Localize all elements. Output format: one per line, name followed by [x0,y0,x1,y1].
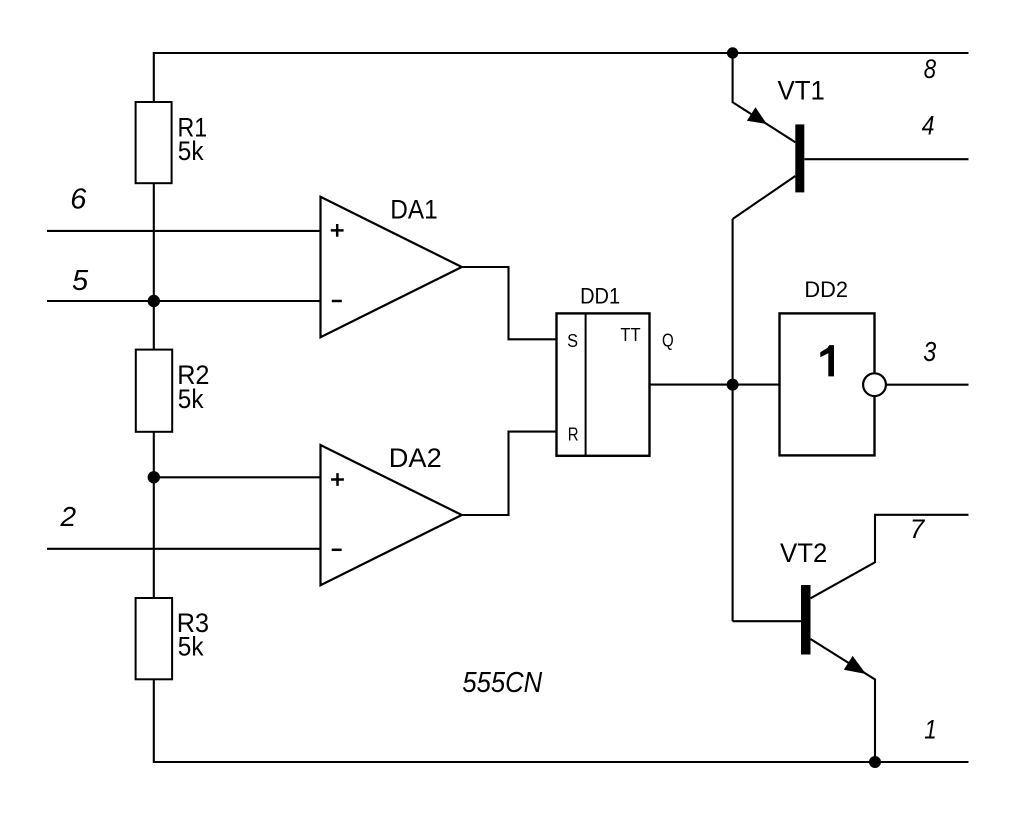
svg-text:1: 1 [924,715,937,745]
svg-text:8: 8 [924,54,937,84]
svg-text:VT1: VT1 [778,75,825,106]
junction node Q output [727,379,739,391]
svg-text:5k: 5k [178,630,204,661]
big 1 symbol inside DD2 [820,345,834,376]
wire DD1 Q output to DD2 input [650,384,780,386]
wire main vertical VT1 collector to VT2 base [732,219,734,621]
wire pin 5 [47,300,321,302]
svg-text:7: 7 [910,514,925,544]
wire DA2 output to DD1 R input [462,432,557,515]
junction node DA2 input [148,471,160,483]
junction node bottom rail [869,756,881,768]
wire VT1 emitter from top rail [733,53,796,142]
svg-text:4: 4 [922,111,935,141]
inversion bubble pin 3 [863,373,886,396]
svg-text:Q: Q [662,330,674,350]
transistor VT1 [747,75,825,193]
resistor R2 [136,350,210,432]
wire pin 2 [47,548,321,550]
inverter DD2 [780,277,886,455]
wire VT2 emitter to bottom rail [811,639,876,762]
svg-text:5: 5 [72,265,89,297]
svg-text:DD2: DD2 [804,277,848,302]
wire R2 to R3 [153,432,155,598]
wire VT1 collector diagonal [733,176,796,219]
wire node to DA2 noninverting input [154,476,321,478]
svg-text:DD1: DD1 [580,283,620,308]
svg-text:6: 6 [70,184,87,216]
svg-text:S: S [567,331,578,351]
transistor VT2 [780,537,866,674]
wire pin 6 [47,230,321,232]
op-amp DA2 [321,442,462,585]
wire pin 3 from DD2 bubble [886,384,969,386]
svg-text:5k: 5k [178,383,204,414]
svg-text:555CN: 555CN [462,667,542,699]
resistor R3 [136,598,210,679]
resistor R1 [136,102,208,183]
wire R1 to R2 [153,183,155,349]
junction node top rail [727,47,738,58]
svg-text:TT: TT [620,324,640,345]
wire VT1 base pin 4 [804,158,968,160]
svg-text:2: 2 [60,501,77,532]
svg-text:DA2: DA2 [389,442,442,473]
wire R3 to bottom rail pin 1 [154,679,969,762]
svg-text:3: 3 [923,336,937,367]
svg-text:R: R [568,424,579,444]
junction node pin5 divider [148,295,160,307]
svg-text:5k: 5k [178,135,204,166]
wire top rail pin 8 [154,53,969,102]
wire VT2 collector to pin 7 [811,515,969,599]
op-amp DA1 [321,194,462,338]
wire DA1 output to DD1 S input [462,267,557,339]
svg-text:DA1: DA1 [390,194,437,225]
svg-text:VT2: VT2 [780,537,827,568]
wire VT2 base [733,620,801,622]
flip-flop DD1 [557,283,674,456]
